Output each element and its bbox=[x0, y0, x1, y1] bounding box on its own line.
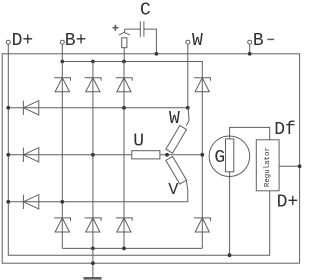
terminal B+ bbox=[60, 40, 64, 44]
diode D6 (negative, phase W) bbox=[116, 218, 132, 232]
svg-text:Df: Df bbox=[274, 120, 296, 140]
node regulator frame bbox=[298, 164, 302, 168]
wire B+ stub bbox=[61, 44, 63, 61]
node B+ bus col2 bbox=[91, 60, 95, 64]
node phase U col2 bbox=[91, 153, 95, 157]
wire D+ bottom run to regulator bbox=[8, 191, 269, 255]
rotor G circle bbox=[209, 136, 250, 177]
wire rotor top brush to regulator Df bbox=[230, 127, 270, 139]
wire winding V lead bbox=[186, 180, 188, 202]
svg-text:D+: D+ bbox=[12, 31, 34, 51]
svg-text:G: G bbox=[214, 148, 225, 168]
diode DE2 (exciter, phase U) bbox=[23, 148, 38, 162]
node rotor brush on D+ wire bbox=[228, 253, 232, 257]
node B+ bus col1 bbox=[60, 60, 64, 64]
node capacitor to frame bbox=[155, 52, 159, 56]
stator winding U bbox=[132, 151, 160, 159]
svg-text:V: V bbox=[168, 181, 179, 200]
terminal D+ bbox=[6, 40, 10, 44]
node B+ bus col3 bbox=[122, 60, 126, 64]
wire phase column 2 bbox=[92, 62, 94, 249]
wire D+ rail bbox=[7, 44, 9, 202]
node phase W terminal W bbox=[186, 106, 190, 110]
svg-text:Regulator: Regulator bbox=[264, 147, 272, 187]
diode D2 (positive, phase U) bbox=[85, 78, 101, 92]
svg-text:U: U bbox=[133, 131, 144, 151]
regulator U1 bbox=[256, 140, 279, 191]
node ground bus col3 bbox=[122, 247, 126, 251]
stator winding V bbox=[166, 156, 187, 184]
wire B- stub bbox=[249, 44, 251, 54]
node phase V col1 bbox=[60, 200, 64, 204]
diode D8 (negative, star point) bbox=[194, 218, 210, 232]
wire star point leads bbox=[160, 154, 202, 156]
node frame bottom chassis bbox=[91, 261, 95, 265]
wire ground bus bbox=[62, 247, 202, 249]
wire B+ bus bbox=[62, 62, 202, 78]
node D+ rail phase V bbox=[6, 200, 10, 204]
node star column 4 bbox=[200, 153, 204, 157]
svg-text:W: W bbox=[169, 109, 180, 129]
diode D1 (positive, phase V) bbox=[54, 78, 70, 92]
terminal B- bbox=[248, 40, 252, 44]
svg-text:B+: B+ bbox=[65, 31, 87, 51]
wire phase U line bbox=[8, 154, 132, 156]
diode D7 (positive, star point) bbox=[194, 78, 210, 92]
node ground bus col2 bbox=[91, 247, 95, 251]
wire winding W lead bbox=[186, 108, 189, 126]
diode D4 (negative, phase V) bbox=[54, 218, 70, 232]
wire phase V line bbox=[8, 201, 188, 203]
wire phase W line bbox=[8, 107, 188, 109]
svg-text:B: B bbox=[253, 31, 264, 51]
node D+ rail phase W bbox=[6, 106, 10, 110]
connector + (suppressor plug) bbox=[112, 25, 129, 62]
wire phase column 1 bbox=[61, 62, 63, 249]
capacitor C bbox=[124, 22, 156, 54]
svg-text:C: C bbox=[140, 1, 151, 21]
diode DE1 (exciter, phase W) bbox=[23, 101, 38, 115]
diode DE3 (exciter, phase V) bbox=[23, 195, 38, 209]
rotor slip ring rectangle bbox=[226, 139, 234, 172]
diode D3 (positive, phase W) bbox=[116, 78, 132, 92]
wire regulator to frame bbox=[279, 165, 300, 167]
wire phase column 3 bbox=[123, 62, 125, 249]
node B- on frame bbox=[248, 52, 252, 56]
node D+ rail phase U bbox=[6, 153, 10, 157]
frame (alternator housing, B- potential) bbox=[2, 54, 299, 263]
wire rotor bottom brush bbox=[229, 172, 231, 255]
terminal W bbox=[186, 40, 190, 44]
stator winding W bbox=[166, 126, 187, 154]
diode D5 (negative, phase U) bbox=[85, 218, 101, 232]
svg-text:W: W bbox=[192, 31, 203, 51]
wire W stub bbox=[187, 44, 189, 108]
node star point bbox=[165, 153, 169, 157]
node phase W col3 bbox=[122, 106, 126, 110]
ground bbox=[83, 248, 101, 278]
wire star column 4 bbox=[201, 78, 203, 249]
svg-text:D+: D+ bbox=[277, 192, 299, 212]
